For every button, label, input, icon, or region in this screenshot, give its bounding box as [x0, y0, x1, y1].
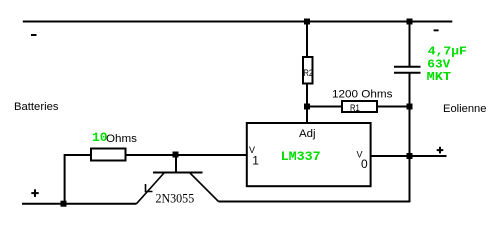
- svg-text:1: 1: [252, 153, 259, 167]
- label - (battery negative): [31, 34, 37, 36]
- node junction R1 left / Adj: [304, 104, 310, 110]
- capacitor C1 plates: [394, 66, 421, 68]
- transistor Q1 emitter arrow: [146, 184, 153, 192]
- resistor R2: [303, 57, 313, 84]
- wire bottom left (battery plus): [22, 203, 137, 205]
- node junction top capacitor: [407, 19, 413, 25]
- node junction R1 right: [407, 104, 413, 110]
- svg-text:Adj: Adj: [299, 128, 316, 140]
- transistor Q1 collector diagonal: [190, 173, 219, 202]
- svg-text:R2: R2: [304, 68, 314, 78]
- wire capacitor branch vertical lower (to bottom wire): [409, 73, 411, 202]
- svg-text:LM337: LM337: [281, 149, 321, 164]
- label - (eolienne negative): [434, 29, 439, 31]
- wire R2 branch vertical (top rail to Adj pin): [306, 22, 308, 125]
- wire R1 row horizontal: [307, 106, 410, 108]
- wire left vertical (battery plus riser): [64, 154, 66, 204]
- svg-text:Eolienne: Eolienne: [443, 103, 487, 115]
- transistor Q1 base bar: [153, 172, 203, 174]
- svg-text:1200 Ohms: 1200 Ohms: [332, 89, 393, 101]
- svg-text:R1: R1: [350, 103, 360, 113]
- label + (battery positive): [31, 189, 38, 197]
- node junction base: [173, 152, 179, 158]
- label + (output positive): [437, 147, 444, 154]
- op-amp U1 regulator LM337 box: [247, 123, 371, 186]
- wire V0 output horizontal: [370, 155, 447, 157]
- svg-text:0: 0: [361, 157, 368, 171]
- transistor Q1 base wire: [175, 155, 177, 173]
- label capacitor value 4,7uF 63V MKT: [427, 44, 467, 84]
- wire bottom right (collector to output riser): [219, 201, 410, 203]
- svg-text:2N3055: 2N3055: [156, 191, 195, 205]
- wire V1 input horizontal: [65, 154, 247, 156]
- transistor Q1 emitter diagonal: [137, 173, 165, 204]
- resistor R1: [342, 101, 377, 112]
- resistor R3 10 Ohms: [91, 149, 126, 161]
- svg-text:4,7µF: 4,7µF: [428, 44, 467, 58]
- svg-text:MKT: MKT: [427, 70, 452, 84]
- wire top negative rail: [23, 21, 453, 23]
- svg-text:Ohms: Ohms: [106, 133, 138, 145]
- wire capacitor branch vertical upper: [409, 22, 411, 67]
- node junction V0 output: [407, 153, 413, 159]
- node junction top R2: [304, 19, 310, 25]
- svg-text:Batteries: Batteries: [14, 101, 59, 113]
- node junction battery plus: [61, 201, 67, 207]
